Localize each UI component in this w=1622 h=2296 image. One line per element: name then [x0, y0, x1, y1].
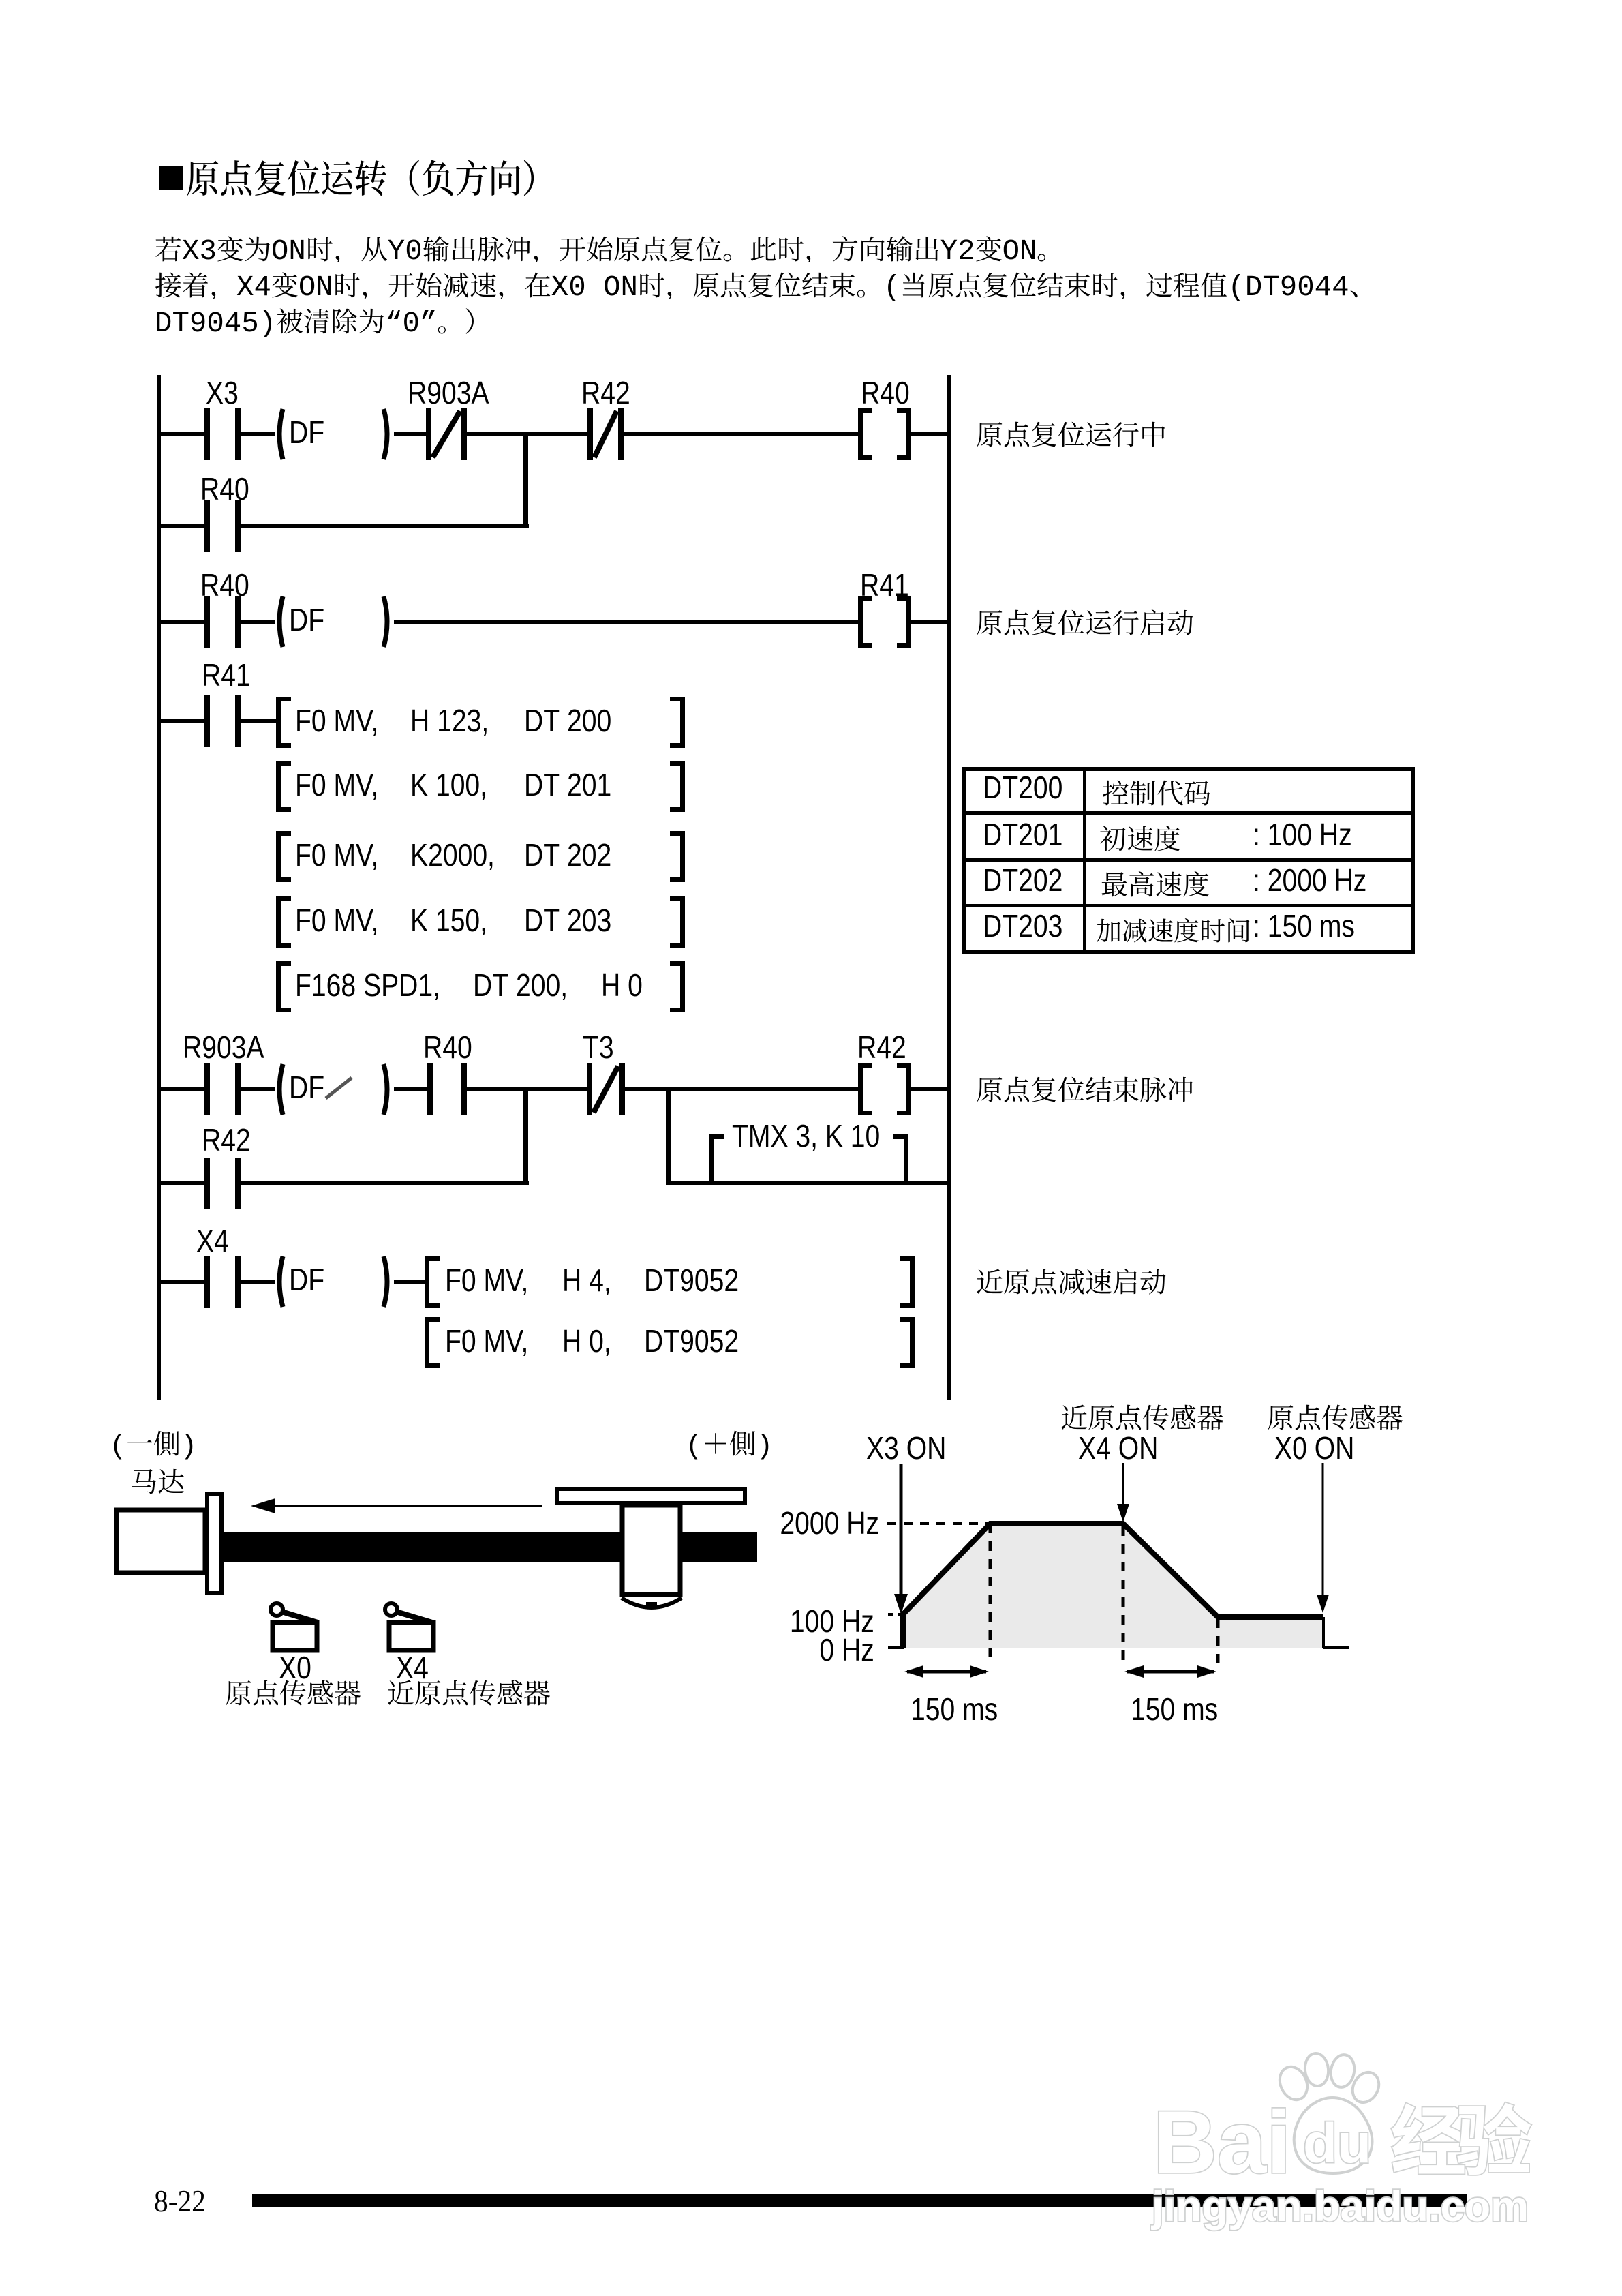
wire rung2 c	[394, 620, 858, 624]
instr bracket R row4	[670, 896, 685, 948]
wire rung1 c	[394, 432, 426, 436]
shaft (ball screw)	[223, 1532, 757, 1562]
wire rung3 b	[241, 719, 276, 723]
page number 8-22	[154, 2186, 206, 2217]
contact R42 (branch)	[204, 1158, 241, 1209]
label R903A	[183, 1031, 264, 1063]
DF text	[289, 1264, 324, 1295]
right power rail	[947, 375, 951, 1400]
watermark Baidu logo text	[1151, 2092, 1529, 2231]
watermark paw logo	[1274, 2052, 1383, 2173]
sensor X0 circle	[271, 1603, 283, 1616]
table cell DT202	[983, 864, 1062, 896]
rung comment 3	[976, 1076, 1194, 1107]
graph axis 0 Hz	[773, 1634, 874, 1665]
wire rung3 a	[157, 719, 204, 723]
instr bracket R row2	[670, 761, 685, 812]
wire branch R40 a	[157, 524, 204, 528]
watermark char 经	[1392, 2103, 1465, 2173]
contact R40 (branch)	[204, 500, 241, 552]
motor body	[117, 1510, 205, 1573]
baseline left segment	[888, 1646, 904, 1649]
wire TMX branch	[669, 1181, 949, 1185]
instr5 bracket L row1	[425, 1256, 440, 1308]
baseline right segment	[1323, 1646, 1349, 1649]
left power rail	[157, 375, 161, 1400]
wire rung1 a	[157, 432, 204, 436]
coil R42	[858, 1063, 911, 1115]
wire rung2 b	[241, 620, 275, 624]
graph label 近原点传感器	[1060, 1404, 1224, 1435]
carriage bottom arc	[622, 1598, 682, 1607]
contact R903A (NC)	[426, 408, 467, 460]
wire rung4 a	[157, 1087, 204, 1091]
DF text	[289, 604, 324, 635]
label R41	[860, 569, 909, 601]
paragraph line 1	[155, 235, 1064, 267]
instr bracket L row2	[276, 761, 291, 812]
instruction row 5	[295, 969, 440, 1001]
wire junction drop rung4 left	[523, 1089, 528, 1185]
dashed 2000Hz horizontal	[887, 1522, 988, 1525]
title black square bullet	[159, 166, 183, 190]
rung comment 1	[976, 421, 1167, 452]
instr bracket L row1	[276, 697, 291, 748]
wire rung4 e	[625, 1087, 858, 1091]
instruction row 2	[295, 769, 378, 800]
table cell 控制代码	[1102, 779, 1211, 811]
wire rung2 a	[157, 620, 204, 624]
contact X4	[204, 1256, 241, 1308]
table value 100Hz	[1253, 819, 1352, 850]
svg-text:Bai: Bai	[1153, 2092, 1291, 2192]
X0 ON arrow	[1317, 1463, 1329, 1613]
wire rung4 d	[467, 1087, 587, 1091]
label R42	[857, 1031, 906, 1063]
instr bracket L row4	[276, 896, 291, 948]
sensor X4 circle	[385, 1603, 397, 1616]
contact R41	[204, 695, 241, 747]
timer TMX corner L	[709, 1134, 724, 1183]
wire rung4 b	[241, 1087, 275, 1091]
instr5 bracket R row2	[900, 1317, 915, 1368]
graph end drop	[1322, 1617, 1325, 1648]
rung comment 4	[976, 1268, 1167, 1299]
DF/ paren open rung4	[279, 1064, 283, 1115]
contact R903A rung4	[204, 1063, 241, 1115]
table row separator 2	[964, 858, 1413, 862]
wire rung1 b	[241, 432, 275, 436]
instruction row 3	[295, 839, 378, 871]
label X0	[279, 1652, 311, 1683]
contact T3 (NC)	[587, 1063, 625, 1115]
wire rung1 e	[624, 432, 858, 436]
wire junction drop rung4 right	[666, 1089, 671, 1185]
svg-text:jingyan.baidu.com: jingyan.baidu.com	[1151, 2183, 1529, 2231]
table cell 加减速度时间	[1096, 918, 1251, 947]
measure arrow decel	[1124, 1665, 1216, 1678]
label R41	[202, 659, 251, 691]
paragraph line 2	[155, 271, 1377, 303]
carriage block	[622, 1505, 680, 1595]
label R40	[200, 569, 249, 601]
graph 150 ms left	[911, 1693, 998, 1725]
label X4	[396, 1652, 429, 1683]
watermark char 验	[1457, 2103, 1531, 2175]
table row separator 1	[964, 811, 1413, 815]
measure arrow accel	[904, 1665, 989, 1678]
wire rung1 f	[911, 432, 949, 436]
motor flange	[207, 1494, 221, 1593]
table row separator 3	[964, 904, 1413, 907]
coil R41	[858, 596, 911, 648]
sensor X4 lever	[396, 1612, 432, 1622]
instruction row 4	[295, 905, 378, 936]
DF paren open rung5	[279, 1256, 283, 1307]
table value 2000Hz	[1253, 864, 1366, 896]
label R40	[861, 377, 910, 408]
table cell DT201	[983, 819, 1062, 850]
table cell 初速度	[1099, 825, 1181, 856]
coil R40	[858, 408, 911, 460]
wire branch R42 b	[241, 1181, 529, 1185]
DF/ paren close rung4	[384, 1064, 387, 1115]
label TMX 3, K 10	[732, 1120, 880, 1151]
DF text	[289, 1072, 324, 1103]
graph axis 100 Hz	[773, 1605, 874, 1637]
dashed vertical decel end	[1216, 1618, 1220, 1663]
instr5 bracket L row2	[425, 1317, 440, 1368]
label X4	[196, 1225, 229, 1256]
instr bracket R row5	[670, 961, 685, 1012]
graph label X4 ON	[1078, 1432, 1158, 1464]
label 马达	[130, 1468, 185, 1499]
instruction row 1	[295, 705, 378, 736]
graph shaded area	[903, 1524, 1323, 1648]
contact R40	[204, 596, 241, 648]
table column separator	[1083, 769, 1086, 952]
wire rung4 f	[911, 1087, 949, 1091]
DF paren open rung1	[279, 409, 283, 459]
graph label X3 ON	[866, 1432, 946, 1464]
sensor X0 lever	[281, 1612, 318, 1622]
direction arrow line	[266, 1505, 542, 1507]
carriage plate	[557, 1489, 745, 1503]
contact R40 rung4	[427, 1063, 467, 1115]
label R40	[200, 473, 249, 504]
label R42	[202, 1124, 251, 1155]
instr bracket R row1	[670, 697, 685, 748]
instruction rung5 row2	[445, 1325, 528, 1357]
instruction rung5 row1	[445, 1265, 528, 1296]
label 近原点传感器	[387, 1679, 551, 1710]
wire junction drop rung1	[523, 434, 528, 528]
graph axis 2000 Hz	[779, 1507, 879, 1539]
sensor X0 box	[273, 1622, 317, 1650]
contact R42 (NC)	[587, 408, 624, 460]
sensor X4 box	[389, 1622, 433, 1650]
wire rung2 d	[911, 620, 949, 624]
label T3	[583, 1031, 614, 1063]
timer TMX corner R	[893, 1134, 908, 1183]
contact X3	[204, 408, 241, 460]
DF paren open rung2	[279, 596, 283, 647]
footer rule bar	[252, 2194, 1467, 2207]
graph speed profile	[903, 1524, 1323, 1648]
instr5 bracket R row1	[900, 1256, 915, 1308]
label R40	[423, 1031, 472, 1063]
table DT200-DT203 outer border	[964, 769, 1413, 952]
100Hz tick dashes	[888, 1613, 902, 1616]
instr bracket L row5	[276, 961, 291, 1012]
graph label X0 ON	[1274, 1432, 1354, 1464]
svg-text:du: du	[1303, 2113, 1371, 2175]
DF text	[289, 417, 324, 448]
label (一側)	[110, 1430, 197, 1461]
instr bracket R row3	[670, 831, 685, 882]
wire rung1 d	[467, 432, 587, 436]
label R42	[581, 377, 630, 408]
label 原点传感器	[225, 1679, 361, 1710]
DF paren close rung1	[384, 409, 387, 459]
wire rung4 c	[394, 1087, 427, 1091]
wire rung5 b	[241, 1280, 275, 1284]
graph label 原点传感器	[1267, 1404, 1403, 1435]
table value 150ms	[1253, 910, 1355, 941]
label R903A	[408, 377, 489, 408]
label X3	[206, 377, 239, 408]
paragraph line 3	[155, 307, 491, 339]
dashed vertical decel start	[1122, 1526, 1125, 1663]
wire branch R42 a	[157, 1181, 204, 1185]
label (＋側)	[686, 1430, 773, 1461]
table cell DT200	[983, 772, 1062, 803]
wire branch R40 b	[241, 524, 529, 528]
table cell 最高速度	[1101, 871, 1210, 902]
rung comment 2	[976, 609, 1194, 640]
X4 ON arrow	[1117, 1463, 1129, 1522]
X3 ON arrow	[894, 1464, 908, 1614]
dashed vertical accel end	[989, 1524, 992, 1663]
graph 150 ms right	[1131, 1693, 1218, 1725]
direction arrow head	[251, 1498, 275, 1513]
table cell DT203	[983, 910, 1062, 941]
DF paren close rung5	[384, 1256, 387, 1307]
title text	[186, 159, 555, 201]
DF paren close rung2	[384, 596, 387, 647]
wire rung5 a	[157, 1280, 204, 1284]
wire rung5 c	[394, 1280, 425, 1284]
instr bracket L row3	[276, 831, 291, 882]
DF/ slash rung4	[326, 1078, 352, 1098]
